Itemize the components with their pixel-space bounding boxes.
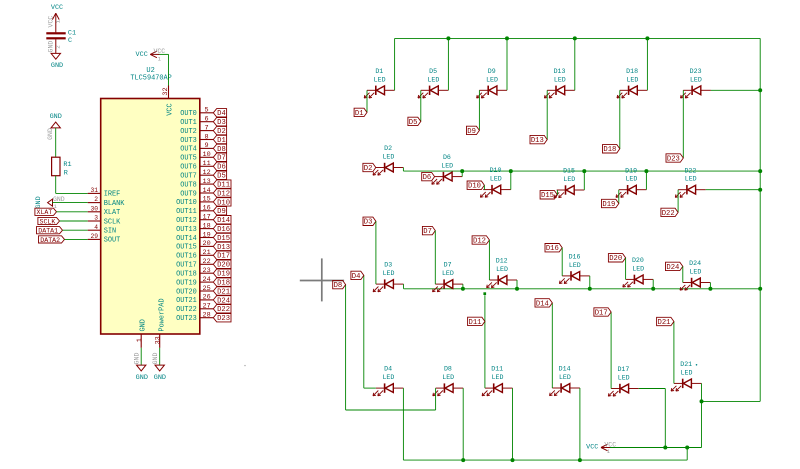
svg-text:GND: GND xyxy=(133,353,140,365)
svg-text:32: 32 xyxy=(162,87,170,95)
svg-text:D7: D7 xyxy=(217,155,226,163)
svg-text:D3: D3 xyxy=(217,119,226,127)
svg-text:VCC: VCC xyxy=(51,4,63,12)
svg-text:28: 28 xyxy=(203,312,211,320)
svg-text:LED: LED xyxy=(382,374,394,381)
svg-text:D1: D1 xyxy=(217,137,226,145)
svg-text:D21: D21 xyxy=(658,319,671,327)
svg-text:LED: LED xyxy=(383,270,395,277)
svg-text:D21: D21 xyxy=(217,288,230,296)
svg-text:1: 1 xyxy=(55,19,62,23)
svg-text:18: 18 xyxy=(203,222,211,230)
svg-text:VCC: VCC xyxy=(167,103,175,115)
svg-text:R: R xyxy=(64,170,68,178)
svg-text:VCC: VCC xyxy=(154,48,166,55)
svg-text:D1: D1 xyxy=(355,110,364,118)
svg-text:GND: GND xyxy=(35,196,43,208)
svg-text:OUT3: OUT3 xyxy=(180,137,197,145)
svg-text:20: 20 xyxy=(203,240,211,248)
svg-text:13: 13 xyxy=(203,178,211,186)
svg-text:D5: D5 xyxy=(409,119,418,127)
svg-text:D22: D22 xyxy=(217,306,230,314)
svg-text:10: 10 xyxy=(203,151,211,159)
svg-text:TLC59470AP: TLC59470AP xyxy=(130,75,171,83)
svg-text:D19: D19 xyxy=(625,167,637,174)
svg-text:D2: D2 xyxy=(217,128,226,136)
svg-text:OUT15: OUT15 xyxy=(176,244,197,252)
svg-text:D20: D20 xyxy=(609,255,622,263)
svg-text:D6: D6 xyxy=(423,174,432,182)
svg-text:LED: LED xyxy=(563,176,575,183)
svg-text:IREF: IREF xyxy=(104,191,121,199)
svg-text:VCC: VCC xyxy=(47,16,54,28)
svg-text:29: 29 xyxy=(90,233,98,240)
svg-text:D12: D12 xyxy=(217,190,230,198)
svg-text:D13: D13 xyxy=(554,68,566,75)
svg-text:1: 1 xyxy=(158,55,162,62)
svg-text:D3: D3 xyxy=(364,219,373,227)
svg-text:D9: D9 xyxy=(217,208,226,216)
svg-text:D4: D4 xyxy=(384,366,392,373)
svg-text:OUT11: OUT11 xyxy=(176,208,197,216)
svg-text:D1: D1 xyxy=(375,68,383,75)
svg-text:VCC: VCC xyxy=(136,51,148,59)
svg-text:GND: GND xyxy=(50,113,62,121)
svg-text:D7: D7 xyxy=(423,228,432,236)
svg-text:DATA2: DATA2 xyxy=(40,237,60,244)
svg-text:D17: D17 xyxy=(595,309,608,317)
svg-text:SCLK: SCLK xyxy=(104,218,121,226)
svg-text:22: 22 xyxy=(203,258,211,266)
svg-text:D7: D7 xyxy=(444,262,452,269)
svg-text:D24: D24 xyxy=(666,264,679,272)
svg-text:D14: D14 xyxy=(217,217,230,225)
svg-text:OUT20: OUT20 xyxy=(176,288,197,296)
svg-text:R1: R1 xyxy=(63,161,71,169)
svg-text:LED: LED xyxy=(496,266,508,273)
svg-text:LED: LED xyxy=(554,76,566,83)
svg-text:D16: D16 xyxy=(569,254,581,261)
svg-text:D11: D11 xyxy=(491,366,503,373)
svg-text:1: 1 xyxy=(136,338,144,342)
svg-text:D20: D20 xyxy=(632,257,644,264)
svg-text:OUT8: OUT8 xyxy=(180,181,197,189)
svg-text:D6: D6 xyxy=(443,154,451,161)
svg-text:4: 4 xyxy=(94,224,98,231)
svg-text:8: 8 xyxy=(205,133,209,141)
svg-text:5: 5 xyxy=(205,107,209,115)
svg-text:GND: GND xyxy=(140,319,148,331)
svg-text:D4: D4 xyxy=(217,110,226,118)
svg-text:LED: LED xyxy=(442,374,454,381)
svg-text:D5: D5 xyxy=(429,68,437,75)
svg-text:LED: LED xyxy=(569,262,581,269)
svg-text:2: 2 xyxy=(55,45,62,49)
svg-text:D23: D23 xyxy=(690,68,702,75)
svg-text:LED: LED xyxy=(427,76,439,83)
svg-text:D21: D21 xyxy=(680,361,692,368)
svg-text:OUT10: OUT10 xyxy=(176,199,197,207)
svg-text:D20: D20 xyxy=(217,262,230,270)
svg-text:D18: D18 xyxy=(626,68,638,75)
svg-text:19: 19 xyxy=(203,231,211,239)
svg-text:LED: LED xyxy=(626,76,638,83)
svg-text:OUT14: OUT14 xyxy=(176,235,197,243)
svg-text:OUT6: OUT6 xyxy=(180,164,197,172)
svg-text:SCLK: SCLK xyxy=(39,218,55,225)
svg-text:D10: D10 xyxy=(217,199,230,207)
svg-text:31: 31 xyxy=(90,187,98,194)
svg-text:OUT2: OUT2 xyxy=(180,128,197,136)
svg-text:D13: D13 xyxy=(217,244,230,252)
svg-text:D5: D5 xyxy=(217,173,226,181)
svg-text:D16: D16 xyxy=(217,226,230,234)
svg-text:LED: LED xyxy=(441,163,453,170)
svg-text:VCC: VCC xyxy=(586,444,598,452)
svg-text:25: 25 xyxy=(203,285,211,293)
svg-text:14: 14 xyxy=(203,187,211,195)
svg-text:12: 12 xyxy=(203,169,211,177)
svg-text:LED: LED xyxy=(689,269,701,276)
svg-text:D8: D8 xyxy=(444,366,452,373)
svg-text:24: 24 xyxy=(203,276,211,284)
svg-text:OUT1: OUT1 xyxy=(180,119,197,127)
svg-text:XLAT: XLAT xyxy=(36,209,52,216)
svg-text:OUT22: OUT22 xyxy=(176,306,197,314)
svg-text:D17: D17 xyxy=(217,253,230,261)
svg-text:D2: D2 xyxy=(384,145,392,152)
svg-text:D16: D16 xyxy=(546,245,559,253)
svg-text:LED: LED xyxy=(374,76,386,83)
svg-text:D23: D23 xyxy=(667,155,680,163)
svg-text:LED: LED xyxy=(492,374,504,381)
svg-text:OUT17: OUT17 xyxy=(176,262,197,270)
svg-text:D2: D2 xyxy=(364,165,373,173)
svg-text:LED: LED xyxy=(382,154,394,161)
svg-text:9: 9 xyxy=(205,142,209,150)
svg-text:XLAT: XLAT xyxy=(104,209,121,217)
svg-text:D8: D8 xyxy=(217,146,226,154)
svg-text:D22: D22 xyxy=(684,167,696,174)
svg-text:D9: D9 xyxy=(467,128,476,136)
svg-text:D6: D6 xyxy=(217,164,226,172)
svg-text:2: 2 xyxy=(94,196,98,203)
svg-text:D8: D8 xyxy=(334,282,343,290)
svg-text:D11: D11 xyxy=(217,182,230,190)
svg-text:LED: LED xyxy=(690,76,702,83)
svg-text:LED: LED xyxy=(681,369,693,376)
svg-text:D10: D10 xyxy=(490,167,502,174)
svg-text:BLANK: BLANK xyxy=(104,200,126,208)
svg-text:D22: D22 xyxy=(662,210,675,218)
svg-text:23: 23 xyxy=(203,267,211,275)
svg-text:OUT18: OUT18 xyxy=(176,271,197,279)
svg-text:OUT21: OUT21 xyxy=(176,297,197,305)
svg-text:SOUT: SOUT xyxy=(104,237,121,245)
svg-text:LED: LED xyxy=(486,76,498,83)
svg-text:D24: D24 xyxy=(217,297,230,305)
svg-text:GND: GND xyxy=(47,41,54,53)
svg-text:16: 16 xyxy=(203,205,211,213)
svg-text:D12: D12 xyxy=(473,237,486,245)
svg-text:OUT16: OUT16 xyxy=(176,253,197,261)
svg-text:OUT23: OUT23 xyxy=(176,315,197,323)
svg-text:15: 15 xyxy=(203,196,211,204)
svg-text:OUT5: OUT5 xyxy=(180,155,197,163)
svg-text:D17: D17 xyxy=(617,366,629,373)
svg-text:D24: D24 xyxy=(689,260,701,267)
svg-text:SIN: SIN xyxy=(104,228,116,236)
svg-text:D10: D10 xyxy=(468,183,481,191)
svg-text:30: 30 xyxy=(90,205,98,212)
svg-text:GND: GND xyxy=(53,196,65,203)
svg-text:D4: D4 xyxy=(352,273,361,281)
svg-text:D3: D3 xyxy=(384,262,392,269)
svg-text:D14: D14 xyxy=(559,366,571,373)
svg-text:D18: D18 xyxy=(217,280,230,288)
svg-text:26: 26 xyxy=(203,294,211,302)
svg-text:OUT19: OUT19 xyxy=(176,279,197,287)
svg-text:LED: LED xyxy=(625,176,637,183)
svg-text:D15: D15 xyxy=(217,235,230,243)
svg-text:GND: GND xyxy=(47,128,54,140)
svg-text:D14: D14 xyxy=(536,300,549,308)
svg-text:OUT13: OUT13 xyxy=(176,226,197,234)
svg-text:D15: D15 xyxy=(563,168,575,175)
svg-text:OUT4: OUT4 xyxy=(180,146,197,154)
svg-text:LED: LED xyxy=(685,176,697,183)
svg-text:21: 21 xyxy=(203,249,211,257)
svg-text:6: 6 xyxy=(205,116,209,124)
svg-text:LED: LED xyxy=(490,176,502,183)
svg-text:GND: GND xyxy=(154,374,166,382)
svg-text:LED: LED xyxy=(442,270,454,277)
svg-text:3: 3 xyxy=(94,215,98,222)
svg-text:LED: LED xyxy=(559,374,571,381)
svg-text:DATA1: DATA1 xyxy=(38,228,58,235)
svg-text:OUT9: OUT9 xyxy=(180,190,197,198)
svg-text:D15: D15 xyxy=(541,192,554,200)
svg-text:27: 27 xyxy=(203,303,211,311)
svg-text:D23: D23 xyxy=(217,315,230,323)
svg-text:C: C xyxy=(68,37,72,45)
svg-text:GND: GND xyxy=(51,62,63,70)
svg-text:LED: LED xyxy=(618,375,630,382)
svg-text:OUT12: OUT12 xyxy=(176,217,197,225)
svg-text:D18: D18 xyxy=(603,146,616,154)
svg-text:GND: GND xyxy=(152,353,159,365)
svg-text:D11: D11 xyxy=(469,319,482,327)
svg-text:LED: LED xyxy=(632,265,644,272)
svg-text:D12: D12 xyxy=(496,258,508,265)
svg-text:D9: D9 xyxy=(488,68,496,75)
svg-text:D19: D19 xyxy=(602,201,615,209)
svg-text:GND: GND xyxy=(136,374,148,382)
svg-text:D13: D13 xyxy=(531,137,544,145)
svg-text:7: 7 xyxy=(205,124,209,132)
svg-text:PowerPAD: PowerPAD xyxy=(158,298,166,331)
svg-text:1: 1 xyxy=(607,448,611,455)
svg-text:33: 33 xyxy=(154,336,162,344)
svg-text:OUT0: OUT0 xyxy=(180,110,197,118)
svg-text:17: 17 xyxy=(203,214,211,222)
svg-text:D19: D19 xyxy=(217,271,230,279)
svg-text:11: 11 xyxy=(203,160,211,168)
svg-text:OUT7: OUT7 xyxy=(180,173,197,181)
